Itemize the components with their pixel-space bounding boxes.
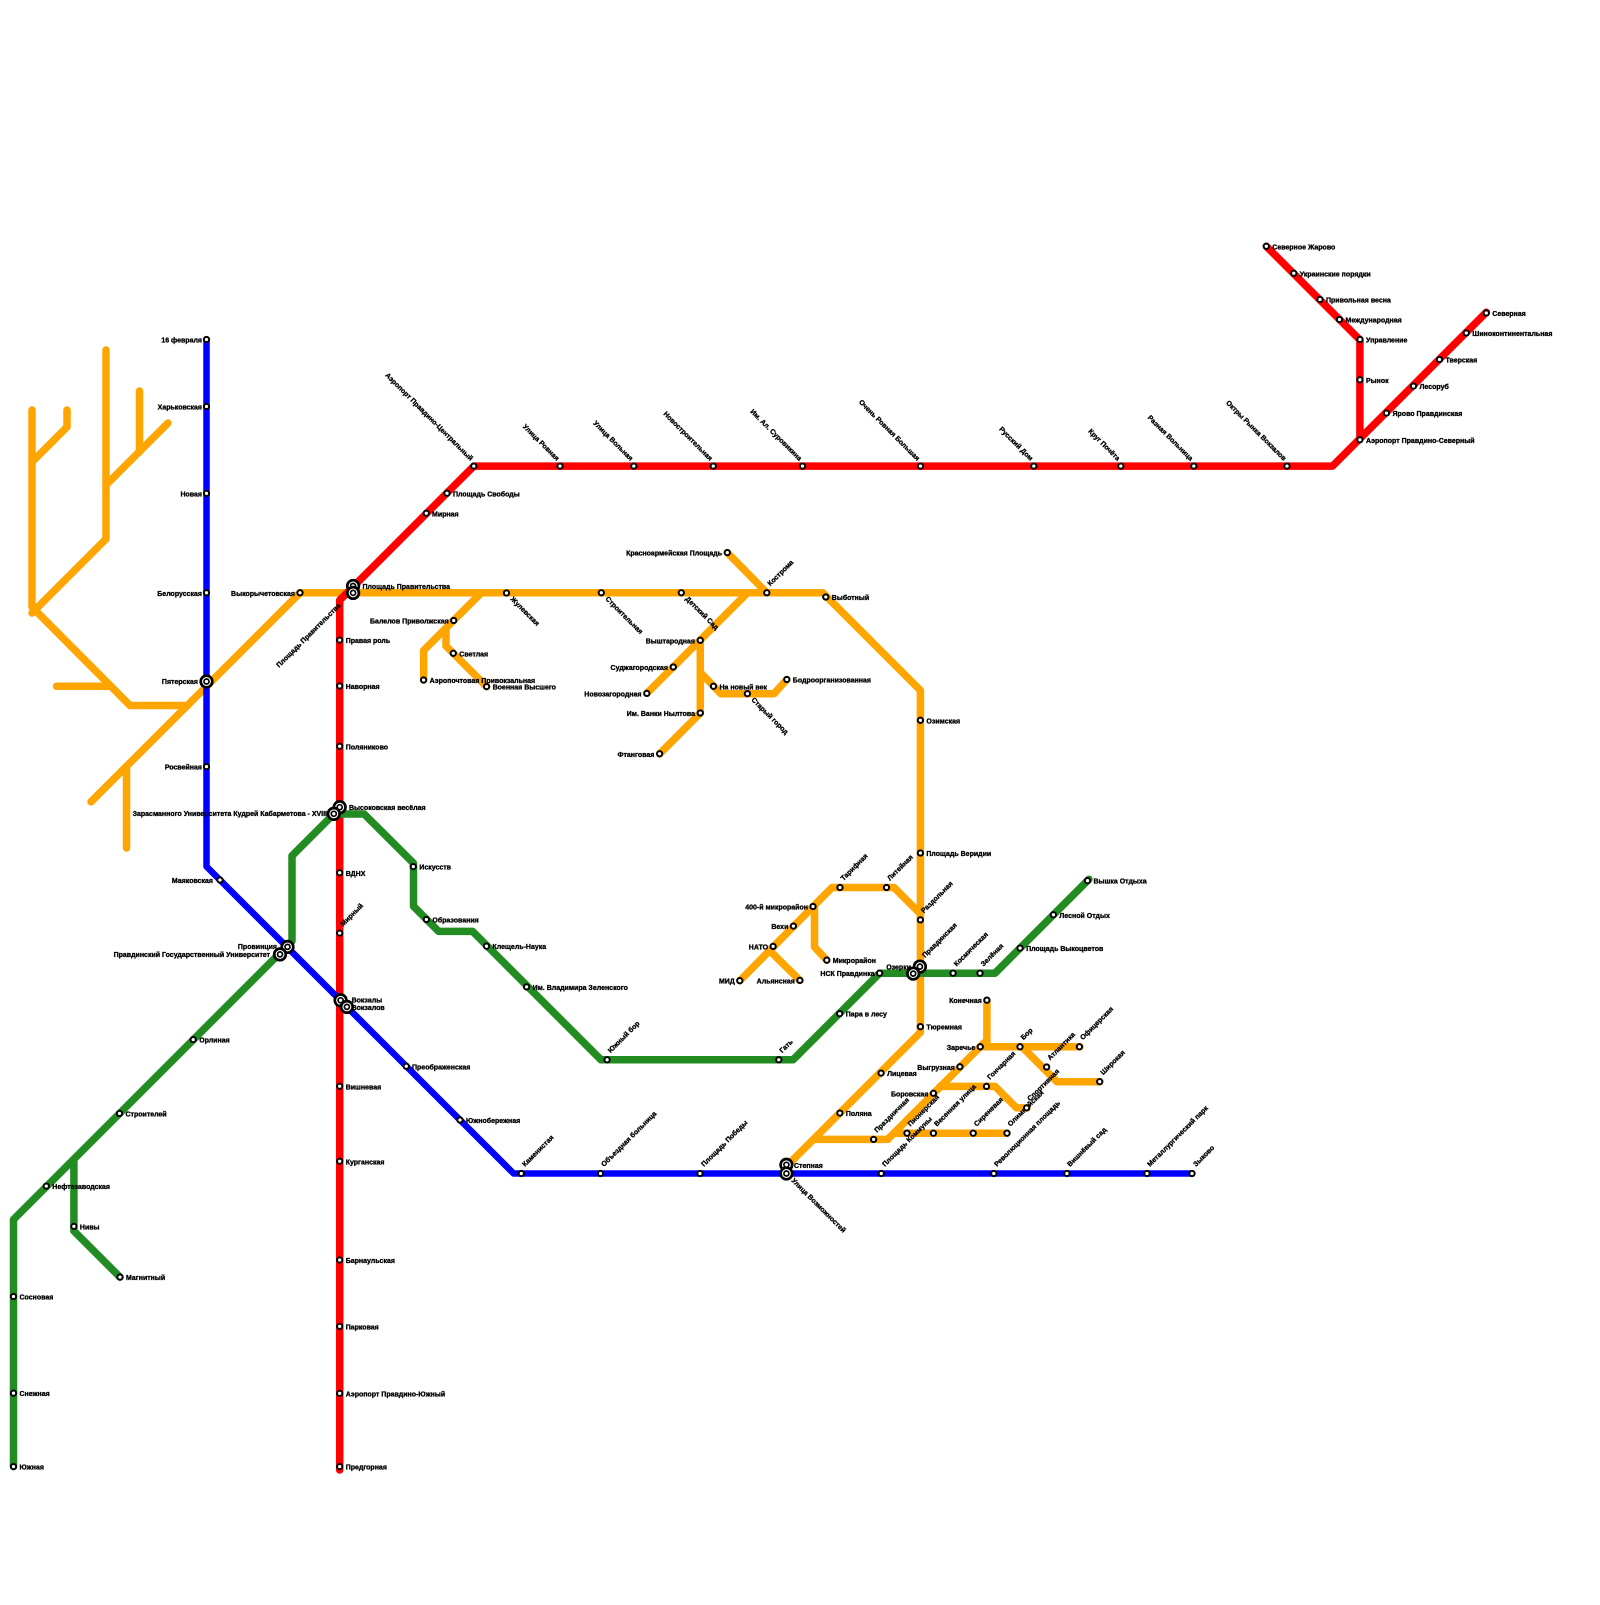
station Stroitelnaya [599,590,604,595]
interchange Vokzaly red [335,995,347,1007]
svg-text:Курганская: Курганская [346,1159,385,1166]
orange tree branch C [106,423,168,485]
svg-text:Провинция: Провинция [238,944,277,951]
svg-text:Украинские порядки: Украинские порядки [1300,271,1371,278]
svg-text:16 февраля: 16 февраля [161,338,202,345]
station Polyana [837,1110,842,1115]
orange tree stub D [136,391,144,452]
station Im Vanki [698,710,703,715]
svg-text:Бодроорганизованная: Бодроорганизованная [793,678,871,685]
station Im Zelenskogo [524,984,529,989]
svg-text:Степная: Степная [794,1163,823,1170]
station Borovskaya [931,1091,936,1096]
station Аэропорт Правдино-Центральный [471,463,476,468]
svg-text:Красноармейская Площадь: Красноармейская Площадь [626,550,723,558]
station Ftangovaya [657,751,662,756]
station VDNH [337,870,342,875]
station Predgornaya [337,1464,342,1469]
svg-text:Строителей: Строителей [126,1111,167,1119]
orange Vyshtarodnaya vertical [660,640,701,754]
svg-text:Росвейная: Росвейная [165,764,202,772]
station Vyshka Otdyha [1085,878,1090,883]
interchange Ozerki orange [914,961,926,973]
station Им. Ал. Суровикина [800,463,805,468]
station Sosnovaya [11,1294,16,1299]
station Русский Дом [1031,463,1036,468]
blue line [207,340,1193,1174]
station Vishnevy sad [1064,1171,1069,1176]
station Vykorychetovskaya [297,590,302,595]
interchange Vysokovskaya red [334,801,346,813]
orange Mikrorayon spur [815,908,827,961]
station Olimpiyskaya [1004,1131,1009,1136]
station Stary gorod [745,691,750,696]
station Aeroport PS [1357,437,1362,442]
svg-text:Нефтезаводская: Нефтезаводская [52,1184,110,1191]
station Novozagorodnaya [644,691,649,696]
svg-text:Правдинский Государственный Ун: Правдинский Государственный Университет [114,951,271,959]
station Konechnaya [984,998,989,1003]
station Prazdnichnaya [871,1137,876,1142]
station Na novy vek [711,684,716,689]
station Mayakovskaya [217,877,222,882]
station Vyshtarodnaya [698,638,703,643]
station Novaya [204,491,209,496]
station Улица Ровная [557,463,562,468]
station Kleshchel [484,944,489,949]
svg-text:Поляна: Поляна [846,1111,872,1118]
svg-text:Военная Высшего: Военная Высшего [493,685,556,692]
interchange PGU green [274,949,286,961]
svg-text:Шиноконтинентальная: Шиноконтинентальная [1472,331,1552,338]
svg-text:Пара в лесу: Пара в лесу [846,1012,887,1019]
orange Shirokaya branch [1022,1047,1100,1082]
interchange Ozerki green [907,968,919,980]
svg-text:Лесной Отдых: Лесной Отдых [1059,912,1110,920]
interchange Vokzaly blue [341,1001,353,1013]
station Mikrorayon [824,958,829,963]
station Aeroport PYu [337,1391,342,1396]
station Belorusskaya [204,590,209,595]
station Goncharnaya [984,1084,989,1089]
station Balelov [451,618,456,623]
svg-text:Южнобережная: Южнобережная [466,1117,520,1125]
station 400 mikrorayon [810,904,815,909]
svg-text:Управление: Управление [1366,338,1407,345]
station Privolnaya [1317,297,1322,302]
station Новостроительная [711,463,716,468]
station Navornaya [337,683,342,688]
svg-text:400-й микрорайон: 400-й микрорайон [745,904,808,912]
svg-text:Преображенская: Преображенская [412,1063,470,1071]
svg-text:Суджагородская: Суджагородская [611,665,668,672]
svg-text:Конечная: Конечная [949,998,982,1005]
svg-text:Лесоруб: Лесоруб [1420,383,1450,391]
station Metallurgichesky [1144,1171,1149,1176]
station Orlinaya [191,1037,196,1042]
svg-text:Орлиная: Орлиная [199,1038,230,1045]
station Bor [1017,1044,1022,1049]
orange tree spur E [57,683,112,691]
station Yuzhnoberezhnaya [457,1117,462,1122]
orange main line east [300,593,920,1167]
station Tarifnaya [837,885,842,890]
svg-text:Выштародная: Выштародная [646,638,695,645]
orange Sportivnaya branch [940,1086,1027,1108]
station Zarechye [978,1044,983,1049]
svg-text:Площадь Правительства: Площадь Правительства [363,584,451,591]
station Zykovo [1189,1171,1194,1176]
station Разная Вольница [1191,463,1196,468]
station Upravlenie [1357,337,1362,342]
station Revolyutsionnaya [991,1171,996,1176]
station Severnaya [1484,310,1489,315]
svg-text:Выботный: Выботный [832,594,869,602]
station Svetlaya [451,651,456,656]
station MID [737,978,742,983]
green Magnitny branch [74,1160,120,1277]
svg-text:Белорусская: Белорусская [157,591,202,598]
station Preobrazhenskaya [404,1064,409,1069]
station Atlantika [1044,1064,1049,1069]
station Severnoe Zharovo [1264,244,1269,249]
station Harkovskaya [204,404,209,409]
station Neftezavodskaya [44,1183,49,1188]
svg-text:Маяковская: Маяковская [172,878,213,885]
station Kostroma [764,590,769,595]
station Aeropochtovaya [421,677,426,682]
station Sportivnaya [1024,1105,1029,1110]
svg-text:Площадь Веридии: Площадь Веридии [926,851,991,858]
svg-text:Магнитный: Магнитный [126,1274,165,1282]
station Rynok [1357,377,1362,382]
station Vishnevaya [337,1084,342,1089]
station Obrazovaniya [424,917,429,922]
svg-text:ВДНХ: ВДНХ [346,871,366,878]
orange tree vertical B [32,350,106,613]
svg-text:Клещель-Наука: Клещель-Наука [493,944,547,951]
station Круг Почёта [1118,463,1123,468]
station Zhulevskaya [504,590,509,595]
station Mirnaya red [424,511,429,516]
station Litsevaya [878,1070,883,1075]
interchange PGU blue [282,941,294,953]
station Krasnoarmeyskaya [725,550,730,555]
station Улица Вольная [631,463,636,468]
svg-text:Вехи: Вехи [771,924,788,931]
interchange Pl Pravitelstva orange [347,587,359,599]
svg-text:НСК Правдинка: НСК Правдинка [820,971,874,978]
orange Konechnaya vertical [983,1000,991,1044]
station Pl Veridii [918,850,923,855]
svg-text:Международная: Международная [1346,318,1402,325]
station Shirokaya [1097,1079,1102,1084]
station 16 fevralya [204,337,209,342]
station Pl Svobody [444,491,449,496]
red main line [340,312,1487,1470]
svg-text:Наворная: Наворная [346,684,380,691]
station Vehi [791,923,796,928]
station Vybotny [823,594,828,599]
station Para v lesu [837,1011,842,1016]
svg-text:Снежная: Снежная [20,1391,50,1398]
svg-text:Новозагородная: Новозагородная [584,691,641,698]
station Tverskaya [1437,357,1442,362]
orange MID branch [740,888,921,981]
interchange Stepnaya orange [781,1159,793,1171]
orange lower east horizontal [894,1129,1007,1137]
station Parkovaya [337,1324,342,1329]
station Kosmicheskaya [950,971,955,976]
svg-text:Выгрузная: Выгрузная [917,1065,955,1072]
station Октры Рынка Вокзалов [1284,463,1289,468]
station Vesennyaya ul [931,1131,936,1136]
station Kurganskaya [337,1159,342,1164]
red northwest branch [1266,246,1360,439]
station Tyuremnaya [918,1024,923,1029]
station Mirny [337,930,342,935]
svg-text:Вишневая: Вишневая [346,1084,382,1091]
svg-text:МИД: МИД [719,979,735,986]
orange Alyansnaya spur [769,950,800,980]
station NATO [770,944,775,949]
station Razdolnaya [918,917,923,922]
svg-text:Зарасманного Университета Кудр: Зарасманного Университета Кудрей Кабарме… [133,810,327,818]
station Zelenaya [977,971,982,976]
svg-text:Пятерская: Пятерская [162,679,198,686]
station Liteynaya [884,885,889,890]
station Pl Vykotsvetov [1017,945,1022,950]
station Ofitserskaya [1077,1044,1082,1049]
station Magnitny [117,1274,122,1279]
orange tree trunk west [32,410,188,706]
svg-text:Озимская: Озимская [926,718,960,725]
station Yarovo [1384,410,1389,415]
station Poyapikovo [337,744,342,749]
svg-text:Тверская: Тверская [1446,358,1478,365]
svg-text:Новая: Новая [180,491,202,498]
svg-text:Площадь Выкоцветов: Площадь Выкоцветов [1026,946,1104,953]
orange lower west horizontal [814,1136,888,1144]
station Alyansnaya [797,978,802,983]
svg-text:Правая роль: Правая роль [346,638,391,645]
svg-text:Балелов Приволжская: Балелов Приволжская [370,619,449,626]
station Obyezdnaya [598,1171,603,1176]
svg-text:Нивы: Нивы [80,1224,100,1231]
station Pl Kommuny [879,1171,884,1176]
svg-text:Микрорайон: Микрорайон [833,957,876,965]
svg-text:Аэропорт Правдино-Северный: Аэропорт Правдино-Северный [1366,437,1475,445]
orange Voennaya spur [446,629,487,687]
svg-text:Сосновая: Сосновая [20,1295,54,1302]
station Pionerskaya [904,1131,909,1136]
svg-text:Им. Владимира Зеленского: Им. Владимира Зеленского [533,985,628,992]
orange tree stub A [32,410,67,462]
station Ukrainskie [1291,271,1296,276]
station Barnaulskaya [337,1257,342,1262]
svg-text:Парковая: Парковая [346,1324,379,1331]
svg-text:Светлая: Светлая [459,651,488,658]
svg-text:Боровская: Боровская [891,1091,928,1098]
svg-text:НАТО: НАТО [749,944,769,951]
station Vygruznaya [957,1064,962,1069]
station Rosveynaya [204,764,209,769]
orange spur below Pyaterskaya [123,767,131,849]
station Lesorub [1411,383,1416,388]
station Yuzhnaya [11,1464,16,1469]
station Voennaya [484,684,489,689]
orange Vyshtarodnaya diagonal [647,593,748,694]
station Iskusstv [411,864,416,869]
orange Aeropochtovaya branch [424,593,482,680]
orange Na novy vek branch [700,673,787,694]
svg-text:Искусств: Искусств [419,865,451,872]
svg-text:Поляниково: Поляниково [346,744,388,751]
station Sudzhagorodskaya [671,664,676,669]
station Gat [776,1057,781,1062]
interchange Vysokovskaya green [328,808,340,820]
svg-text:Площадь Свободы: Площадь Свободы [453,490,520,498]
svg-text:Вышка Отдыха: Вышка Отдыха [1094,879,1147,886]
station Ploshchad Pobedy [697,1171,702,1176]
svg-text:Харьковская: Харьковская [158,405,202,412]
svg-text:Аэропорт Правдино-Южный: Аэропорт Правдино-Южный [346,1390,445,1398]
station Yuzhny bor [604,1057,609,1062]
station Mezhdunarodnaya [1337,317,1342,322]
svg-text:На новый век: На новый век [720,683,768,691]
station Bodroorganizovannaya [784,677,789,682]
svg-text:Рынок: Рынок [1366,378,1389,385]
svg-text:Ярово Правдинская: Ярово Правдинская [1393,411,1463,418]
svg-text:Выкорычетовская: Выкорычетовская [231,591,295,598]
station NSK Pravdinka [877,971,882,976]
svg-text:Им. Ванки Нылтова: Им. Ванки Нылтова [627,711,695,718]
svg-text:Северная: Северная [1492,311,1526,318]
station Snezhnaya [11,1391,16,1396]
station Stroiteley [117,1111,122,1116]
svg-text:Барнаульская: Барнаульская [346,1258,395,1265]
station Sirenevaya [971,1131,976,1136]
svg-text:Привольная весна: Привольная весна [1326,298,1391,305]
interchange Pl Pravitelstva red [347,580,359,592]
station Очень Ровная Большая [918,463,923,468]
svg-text:Заречье: Заречье [947,1045,976,1052]
svg-text:Южная: Южная [20,1465,44,1472]
station Lesnoy Otdyh [1051,912,1056,917]
svg-text:Вокзалы: Вокзалы [352,997,383,1004]
svg-text:Предгорная: Предгорная [346,1465,387,1472]
svg-text:Мирная: Мирная [432,511,459,518]
station Detsky Sad [679,590,684,595]
svg-text:Лицевая: Лицевая [887,1071,917,1078]
station Kamenistaya [519,1171,524,1176]
orange Pyaterskaya diagonal [91,593,300,802]
svg-text:Северное Жарово: Северное Жарово [1272,244,1335,251]
orange cluster diagonal [888,1043,985,1140]
orange cluster horizontal [984,1043,1080,1051]
interchange Stepnaya blue [781,1168,793,1180]
orange Krasnoarmeyskaya branch [727,553,767,593]
station Shinokontinentalnaya [1464,330,1469,335]
station Nivy [71,1224,76,1229]
green main line [14,814,1090,1467]
svg-text:Альянсная: Альянсная [757,978,795,985]
interchange Pyaterskaya [201,676,213,688]
station Pravaya rol [337,637,342,642]
svg-text:Высоковская весёлая: Высоковская весёлая [349,805,426,812]
svg-text:Фтанговая: Фтанговая [617,752,654,759]
svg-text:Вокзалов: Вокзалов [352,1005,386,1012]
svg-text:Образования: Образования [432,917,478,925]
svg-text:Тюремная: Тюремная [926,1025,962,1032]
station Ozimskaya [918,718,923,723]
